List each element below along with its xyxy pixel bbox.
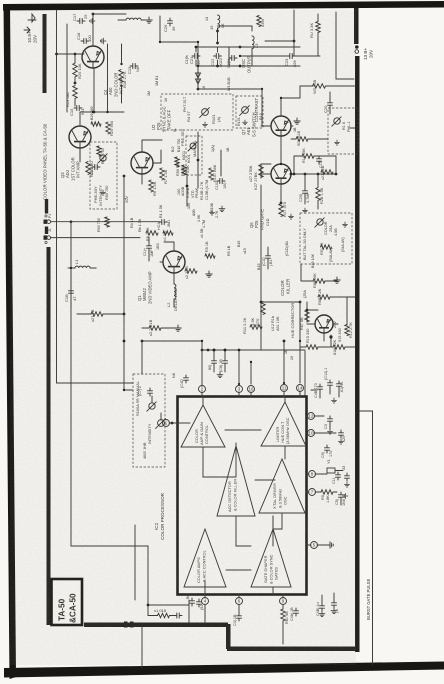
- pin 7: [309, 489, 316, 496]
- capacitor C18: [81, 39, 89, 44]
- label B+ arrow left: [24, 27, 30, 33]
- resistor R25 10K: [73, 63, 77, 77]
- delay line L2: [174, 284, 176, 299]
- pin stubs top: [202, 391, 300, 397]
- right heavy boundary (B+ bus): [354, 8, 359, 44]
- capacitor C6: [345, 473, 350, 481]
- pin 14: [297, 385, 304, 392]
- svg-text:C1D: C1D: [266, 218, 270, 226]
- svg-text:W1 B1B: W1 B1B: [227, 77, 231, 91]
- capacitor C23 .026: [287, 54, 295, 59]
- wire riser pin9: [250, 362, 252, 384]
- capacitor C20: [328, 100, 333, 108]
- capacitor C102 100: [217, 179, 225, 184]
- transistor Q1 2ND VIDEO AMP: [163, 251, 185, 273]
- resistor R18 2.7K: [119, 70, 123, 83]
- wire preset rails: [187, 132, 221, 206]
- capacitor C13 N8: [130, 64, 138, 69]
- svg-text:B/2: B/2: [171, 146, 175, 152]
- ground G5: [175, 325, 181, 331]
- ground G2: [100, 38, 106, 44]
- wire riser pin14: [299, 340, 301, 383]
- capacitor C17: [77, 19, 85, 24]
- resistor R23 6B0: [86, 162, 90, 175]
- wire pin4 down: [204, 605, 206, 623]
- svg-text:B15: B15: [257, 263, 261, 270]
- capacitor C21 .56: [192, 54, 200, 59]
- resistor R3M: [257, 16, 261, 27]
- inductor L1: [75, 266, 90, 268]
- pin 12: [308, 413, 315, 420]
- pin 1: [163, 420, 170, 427]
- pin 4: [202, 598, 209, 605]
- svg-text:1B: 1B: [284, 349, 288, 354]
- op-amp A1 COLOR AMP & GAIN CONTROL: [181, 405, 225, 447]
- capacitor C44: [237, 613, 242, 621]
- resistor R21 B2B: [321, 170, 333, 174]
- svg-text:C14: C14: [90, 168, 94, 175]
- resistor R9 1.8K: [321, 490, 333, 494]
- crystal Y1: [327, 468, 335, 473]
- resistor R11 2.2K: [250, 325, 262, 329]
- control box dashed (AGC): [161, 94, 233, 130]
- wire C26 branch: [160, 16, 198, 88]
- capacitor C8 pair: [212, 358, 217, 366]
- oscillator output coil L3: [252, 36, 254, 49]
- connector pair J2/P2: [44, 235, 48, 239]
- junction dots rails: [213, 349, 216, 352]
- dashed box TINT: [328, 108, 358, 154]
- takeoff arrows: [196, 73, 201, 84]
- resistor R5x 15: [321, 245, 332, 249]
- wire osc row: [218, 26, 253, 66]
- capacitor C48: [332, 600, 337, 608]
- resistor R52: [175, 157, 179, 167]
- pin stubs bottom: [205, 594, 283, 598]
- svg-text:13 B+: 13 B+: [363, 48, 368, 60]
- svg-text:R4 1B: R4 1B: [130, 217, 134, 228]
- resistor R12 2.7K: [345, 325, 349, 336]
- transistor Q6 AND GATE: [271, 164, 291, 184]
- resistor R57 25B: [313, 84, 326, 88]
- caps near C12: [318, 384, 323, 392]
- pin 9: [280, 598, 287, 605]
- svg-text:.100: .100: [187, 203, 191, 210]
- wire x67: [66, 24, 68, 112]
- resistor R31: [296, 137, 308, 141]
- capacitor C45: [190, 598, 195, 606]
- svg-text:R1 1.5K: R1 1.5K: [159, 204, 163, 218]
- pin stubs right: [306, 416, 311, 545]
- svg-text:1: 1: [123, 198, 127, 200]
- svg-text:B15: B15: [237, 241, 241, 247]
- wire rail y302: [261, 301, 300, 303]
- wire vertical x57: [57, 10, 134, 383]
- title box TA-50 & CA-50: [52, 579, 83, 625]
- op-amp A5 COLOR AMPS & ACC CONTROL: [184, 529, 226, 587]
- svg-text:C1|%: C1|%: [185, 54, 189, 64]
- pin 8: [309, 471, 316, 478]
- resistor x1 5B: [163, 231, 173, 235]
- resistor R2 2.2B: [185, 269, 197, 273]
- extra dots: [197, 65, 199, 67]
- capacitor C7 120: [339, 430, 344, 438]
- potentiometer contrast: [200, 108, 210, 118]
- pin 16: [248, 386, 255, 393]
- bottom-right heavy boundary: [227, 647, 359, 652]
- ground for C17: [90, 18, 95, 23]
- potentiometer P2: [156, 419, 166, 429]
- resistor R102: [97, 146, 101, 156]
- svg-text:J1: J1: [48, 228, 52, 232]
- svg-text:R101: R101: [237, 117, 241, 126]
- connector on heavy line bottom: [124, 622, 128, 628]
- capacitor C4 .3M1: [159, 220, 167, 225]
- ground near Q6: [288, 214, 293, 219]
- pin 6: [236, 598, 243, 605]
- pin 5: [311, 542, 318, 549]
- resistor x27 1B: [91, 312, 103, 316]
- capacitor C46: [294, 608, 299, 616]
- internal wiring: [203, 430, 275, 546]
- node 13 B+ 20V: [355, 45, 359, 49]
- resistor R61: [281, 609, 285, 621]
- op-amp A3 LIMITER HUE CONT: [261, 402, 306, 446]
- pot wiper contrast: [243, 120, 248, 125]
- resistor x2.2 B1B: [149, 326, 161, 330]
- resistor R19 15K: [302, 154, 314, 158]
- resistor R2B 1.5K: [316, 188, 320, 201]
- svg-text:16: 16: [202, 86, 206, 90]
- svg-text:R10: R10: [259, 113, 263, 120]
- wire top-right corner: [336, 12, 354, 79]
- resistor R53: [182, 165, 186, 175]
- ground G4: [206, 271, 212, 277]
- capacitor C3 pin12: [328, 416, 333, 424]
- capacitor C19: [317, 156, 322, 164]
- svg-text:20V: 20V: [369, 49, 374, 58]
- resistor R5: [205, 254, 215, 258]
- wire R18 column: [121, 44, 123, 103]
- ground G1: [146, 17, 152, 23]
- op-amp A6 GATE SHAPER: [251, 529, 291, 587]
- wires Q1: [149, 237, 174, 262]
- transistor Q7 S-S SWITCH: [271, 116, 291, 136]
- burst gate pulse line: [372, 411, 374, 665]
- left heavy boundary vertical: [47, 247, 51, 625]
- wires Q2/Q3: [80, 112, 162, 184]
- wire pin6 down: [238, 605, 240, 613]
- transistor Q4 2ND COLOR INT AMP: [82, 46, 104, 68]
- wire pin2 riser: [201, 341, 203, 386]
- wire takeoff to Q7: [198, 89, 271, 126]
- svg-text:14: 14: [205, 17, 209, 21]
- svg-text:x15: x15: [243, 248, 247, 254]
- svg-text:(25A: (25A: [303, 290, 307, 298]
- resistor R6 1.5K: [149, 180, 153, 192]
- capacitor C9 170: [325, 445, 330, 453]
- resistor R68 2.2K: [318, 295, 330, 299]
- ground G6: [294, 118, 300, 124]
- capacitor C11: [336, 472, 341, 480]
- dashed box BUT TAL-50 ONLY: [300, 213, 352, 264]
- border frame top: [3, 1, 444, 11]
- resistor R29b: [91, 122, 101, 126]
- wire x107: [107, 44, 109, 112]
- wires hue corrector: [307, 297, 347, 341]
- potentiometer P1: [147, 402, 156, 411]
- svg-text:1.5K: 1.5K: [197, 214, 201, 222]
- svg-text:5L: 5L: [173, 128, 177, 132]
- dashed box INTENSITY (PHE-50Y): [90, 142, 117, 209]
- capacitor C14: [92, 165, 100, 170]
- svg-text:1M B1: 1M B1: [155, 76, 159, 86]
- pin 11: [281, 385, 288, 392]
- resistor R6 1.5K h: [146, 231, 158, 235]
- resistor R15 330 h: [306, 345, 318, 349]
- svg-text:x27 27BK: x27 27BK: [249, 165, 253, 182]
- capacitor C41: [148, 388, 153, 396]
- capacitor C47: [320, 603, 325, 611]
- ground pin5: [317, 544, 327, 546]
- ground near C29: [302, 208, 307, 213]
- internal wires extra: [177, 423, 282, 587]
- resistor R7 1.3K: [160, 168, 164, 180]
- resistor R17 470: [279, 204, 283, 217]
- svg-text:R10B: R10B: [210, 202, 214, 212]
- svg-text:R50 750: R50 750: [97, 218, 101, 232]
- svg-text:x1 5B: x1 5B: [200, 228, 204, 238]
- resistor R70 3.3K: [261, 302, 265, 315]
- capacitor C10 .01: [266, 253, 271, 261]
- resistor R14 12K: [333, 345, 345, 349]
- wire net A: [51, 221, 161, 223]
- inductor L6: [218, 15, 220, 28]
- svg-text:(SULAV): (SULAV): [329, 248, 333, 262]
- transistor Q3 1ST COLOR INT AMP: [69, 126, 91, 148]
- svg-text:B49 10K: B49 10K: [311, 253, 315, 268]
- svg-text:1B: 1B: [293, 127, 297, 132]
- resistor RU 3.9K: [316, 22, 320, 33]
- wire x189: [188, 600, 190, 623]
- capacitor C1 1MF: [147, 243, 152, 251]
- wire Q4 collector: [93, 14, 126, 46]
- wire net B: [51, 237, 141, 239]
- resistor x1 018: [158, 613, 170, 617]
- bottom-left heavy boundary: [84, 623, 228, 628]
- svg-text:4.7M: 4.7M: [202, 220, 206, 228]
- resistor K27 27BK: [259, 165, 263, 178]
- svg-text:K0D1: K0D1: [182, 151, 186, 160]
- capacitor C15: [74, 106, 82, 111]
- resistor R54: [105, 217, 109, 227]
- ground G7: [334, 277, 340, 283]
- wire stub bus TINT: [347, 296, 355, 298]
- resistor R107: [209, 168, 213, 180]
- svg-text:1B: 1B: [226, 147, 230, 152]
- svg-text:(C1D|.B1: (C1D|.B1: [285, 241, 289, 256]
- capacitor C2: [229, 56, 237, 61]
- wire vertical x71: [71, 222, 148, 605]
- connector pair J1/P1: [44, 220, 48, 224]
- wire Q4 base: [57, 53, 85, 55]
- capacitor C22 .0022: [214, 54, 222, 59]
- inductor L2 top-left: [126, 18, 141, 20]
- wires Q6/Q7: [261, 86, 336, 203]
- capacitor C29 4.7MF: [303, 188, 308, 196]
- wire x294: [265, 10, 294, 56]
- svg-text:B10 750: B10 750: [177, 139, 181, 152]
- svg-text:R102 750: R102 750: [101, 148, 105, 164]
- svg-text:1M: 1M: [147, 91, 151, 96]
- wire stubs Q2 right: [153, 150, 161, 163]
- transistor Q5 HUE CORRECTOR: [315, 315, 333, 333]
- border frame bottom: [4, 662, 444, 678]
- control box dashed CONTRAST: [236, 96, 263, 128]
- wire riser pin16: [238, 350, 240, 384]
- wire y350: [202, 349, 305, 351]
- svg-text:1(A): 1(A): [211, 145, 215, 152]
- capacitor C16 47: [69, 288, 74, 296]
- pin 10: [308, 430, 315, 437]
- svg-text:20: 20: [290, 356, 294, 360]
- op-amp A4 XTAL DRIVER: [259, 459, 305, 513]
- wire x124 long vertical: [123, 176, 125, 390]
- dashed box MANUAL INTENSITY: [133, 374, 165, 467]
- dots: [106, 111, 108, 113]
- resistor R67: [305, 310, 309, 322]
- wire Q3 emitter down: [79, 148, 81, 160]
- resistor R29 560: [106, 122, 110, 134]
- transistor Q2: [131, 152, 153, 174]
- svg-text:2.7K: 2.7K: [215, 210, 219, 218]
- svg-text:&0B: &0B: [192, 209, 196, 216]
- wire x135: [134, 525, 136, 600]
- capacitor C5: [339, 492, 344, 500]
- wire riser pin11: [283, 340, 285, 383]
- wire x142 down to border: [141, 341, 143, 668]
- resistor R69 10K: [313, 279, 325, 283]
- capacitor C40: [184, 375, 189, 383]
- wire stub bus y140: [350, 127, 355, 129]
- resistor R23 682: [73, 86, 77, 99]
- svg-text:R5 1B: R5 1B: [227, 245, 231, 256]
- svg-text:Rb 1.5K: Rb 1.5K: [138, 218, 142, 232]
- pin 2: [199, 386, 206, 393]
- capacitor C43: [174, 613, 182, 618]
- op-amp A2 ACC DETECTOR & COLOR KILLER: [217, 446, 255, 516]
- pin 3: [236, 386, 243, 393]
- svg-text:P1: P1: [48, 214, 52, 218]
- svg-text:16: 16: [164, 98, 168, 102]
- svg-text:K001: K001: [187, 154, 191, 163]
- svg-text:BURST GATE PULSE: BURST GATE PULSE: [366, 579, 371, 620]
- panel boundary heavy segment top: [43, 14, 47, 93]
- IC U1 COLOR PROCESSOR box: [178, 397, 307, 595]
- border frame left: [4, 4, 17, 679]
- wire y341: [142, 340, 202, 342]
- panel boundary dash-dot segments: [45, 199, 48, 214]
- capacitor C26: [168, 18, 173, 26]
